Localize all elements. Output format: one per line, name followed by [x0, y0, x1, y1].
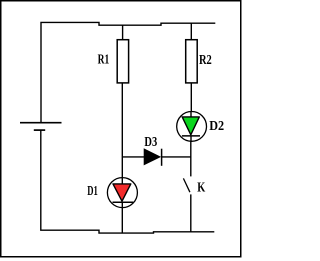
wire D3 right lead (to D2/switch node) [162, 156, 191, 158]
resistor R1 [98, 40, 129, 83]
battery [20, 123, 62, 130]
svg-text:R1: R1 [98, 53, 110, 68]
svg-text:D1: D1 [87, 184, 98, 199]
wire D2 to switch (through D3 node) [190, 142, 192, 177]
svg-text:D2: D2 [209, 119, 224, 134]
LED D1 (red) [87, 177, 137, 208]
svg-text:K: K [197, 181, 205, 196]
wire R1 top lead [122, 25, 124, 40]
wire bottom rail (battery - to D1/K bottoms) [41, 131, 215, 234]
svg-text:R2: R2 [199, 53, 212, 68]
resistor R2 [186, 40, 212, 83]
wire D3 left lead (from R1/D1 branch) [122, 156, 144, 158]
wire R2 top lead [190, 23, 192, 40]
LED D2 (green) [177, 111, 224, 142]
wire top rail (battery + to R1/R2 tops) [41, 22, 215, 123]
svg-text:D3: D3 [144, 135, 157, 150]
wire D1 bottom lead [121, 208, 123, 233]
switch K [183, 178, 205, 195]
diode D3 [144, 135, 161, 166]
wire R2 bottom to D2 [190, 83, 192, 111]
wire R1 bottom to D1 [121, 83, 123, 177]
wire switch bottom lead [190, 194, 192, 232]
